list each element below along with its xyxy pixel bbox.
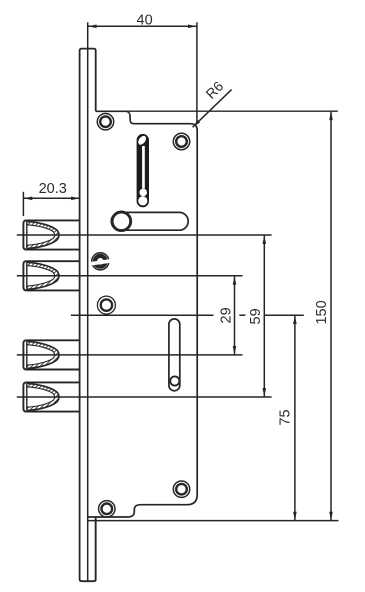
svg-text:75: 75 bbox=[278, 409, 294, 425]
svg-text:59: 59 bbox=[248, 308, 264, 324]
dimension 29 bbox=[234, 276, 236, 355]
cylinder hole (double circle) bbox=[97, 296, 115, 314]
slotted screw head bbox=[91, 253, 110, 270]
screw hole top-right bbox=[173, 133, 189, 149]
lock case back plate bottom edge bbox=[88, 520, 339, 522]
dimension 150 bbox=[330, 111, 332, 520]
dimension 20.3 bbox=[23, 192, 80, 216]
lock case back plate top edge bbox=[96, 110, 338, 112]
follower circle bbox=[112, 212, 131, 231]
faceplate bbox=[80, 49, 96, 582]
svg-text:40: 40 bbox=[137, 13, 153, 29]
centerline bolt B3 bbox=[17, 354, 243, 356]
deadbolt B2 bbox=[23, 261, 79, 290]
svg-text:150: 150 bbox=[314, 300, 330, 324]
screw hole bottom-left bbox=[99, 501, 115, 517]
lock center line bbox=[71, 314, 214, 316]
screw hole top-left bbox=[97, 114, 113, 130]
dimension 59 bbox=[263, 235, 265, 397]
radius callout R6 bbox=[193, 90, 232, 128]
svg-text:20.3: 20.3 bbox=[39, 181, 67, 197]
deadbolt B1 bbox=[23, 220, 79, 249]
svg-text:29: 29 bbox=[219, 307, 235, 323]
centerline bolt B2 bbox=[17, 275, 243, 277]
lower guide slot (vertical stadium) bbox=[169, 319, 180, 391]
handle follower slot (horizontal stadium) bbox=[111, 212, 188, 230]
dimension 75 bbox=[294, 315, 296, 520]
deadbolt B3 bbox=[23, 340, 79, 369]
cover plate outline bbox=[88, 111, 198, 517]
pin in lower slot bbox=[170, 376, 179, 385]
spring slot (dark capsule) bbox=[137, 134, 149, 206]
faceplate backing strip right edge (lower) bbox=[95, 517, 97, 581]
centerline bolt B4 bbox=[17, 396, 272, 398]
screw hole bottom-right bbox=[173, 481, 189, 497]
dimension 40 bbox=[88, 22, 197, 123]
centerline bolt B1 bbox=[17, 234, 272, 236]
deadbolt B4 bbox=[23, 382, 79, 411]
